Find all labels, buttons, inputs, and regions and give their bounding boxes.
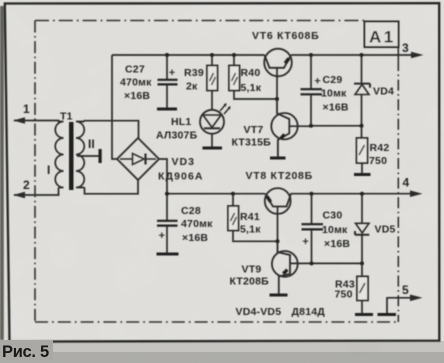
svg-text:5,1к: 5,1к: [241, 82, 262, 94]
dash-dot boundary top side: [35, 20, 365, 22]
transformer T1 secondary winding II: [76, 122, 85, 188]
svg-text:С29: С29: [323, 74, 343, 86]
dash-dot boundary left side: [35, 21, 398, 323]
resistor R39: [211, 55, 213, 66]
node dot R41 top: [231, 192, 235, 196]
resistor R40: [233, 55, 235, 66]
svg-text:С27: С27: [125, 64, 145, 76]
svg-text:R39: R39: [184, 67, 204, 79]
arrowhead 5: [410, 295, 423, 302]
capacitor C30: [311, 194, 313, 224]
svg-text:АЛ307Б: АЛ307Б: [156, 130, 198, 142]
node dot VD4 top: [360, 53, 364, 57]
capacitor C28: [166, 194, 168, 220]
svg-text:750: 750: [369, 155, 387, 167]
darker strip below frame: [0, 341, 444, 363]
R42 chassis bar: [354, 173, 371, 176]
Ris.5 label box: [0, 340, 53, 360]
center tap wire: [77, 155, 99, 157]
svg-text:КТ208Б: КТ208Б: [230, 276, 270, 288]
zener diode VD5: [361, 194, 363, 223]
resistor R43: [361, 263, 363, 276]
VT9 chassis bar: [270, 294, 288, 297]
wire to arrow 5: [387, 298, 411, 313]
svg-text:4: 4: [403, 176, 410, 190]
svg-text:VD5: VD5: [375, 224, 396, 236]
svg-text:×16В: ×16В: [124, 90, 150, 102]
bridge rectifier VD3: [117, 138, 159, 180]
top rail: [112, 54, 265, 56]
svg-text:×16В: ×16В: [182, 232, 208, 244]
VT7 chassis bar: [270, 157, 286, 160]
svg-text:II: II: [88, 137, 95, 151]
capacitor C29: [310, 55, 312, 88]
dash-dot boundary right side: [397, 60, 399, 322]
dash-dot boundary bottom side: [35, 321, 398, 323]
node dot VT8 base / VT9 collector: [276, 239, 280, 243]
capacitor C27: [166, 55, 168, 79]
C27 plus sign: [169, 70, 174, 76]
mid rail top half: [311, 125, 362, 127]
zener diode VD4: [361, 55, 363, 84]
svg-text:VD4: VD4: [373, 86, 394, 98]
transformer T1 primary winding I: [55, 122, 63, 196]
svg-text:С28: С28: [181, 205, 201, 217]
svg-text:5: 5: [402, 283, 409, 297]
svg-text:470мк: 470мк: [181, 218, 213, 230]
svg-text:R42: R42: [370, 142, 390, 154]
resistor R42: [361, 126, 363, 138]
transistor VT9: [272, 251, 298, 277]
svg-text:КТ315Б: КТ315Б: [232, 137, 272, 149]
HL1 emission arrows: [220, 104, 230, 114]
svg-text:HL1: HL1: [171, 116, 191, 128]
svg-text:КД906А: КД906А: [158, 171, 204, 183]
svg-text:5,1к: 5,1к: [240, 224, 261, 236]
svg-text:VT6 КТ608Б: VT6 КТ608Б: [252, 30, 319, 42]
node dot VD5 top: [360, 192, 364, 196]
C27 chassis bar: [157, 108, 177, 111]
svg-text:×16В: ×16В: [324, 238, 350, 250]
R43 chassis bar: [355, 313, 373, 316]
arrowhead 4: [410, 190, 423, 197]
svg-text:2к: 2к: [186, 81, 198, 93]
svg-text:С30: С30: [323, 210, 343, 222]
HL1 chassis bar: [203, 147, 223, 150]
svg-text:VD3: VD3: [172, 156, 195, 168]
svg-text:I: I: [47, 163, 50, 177]
arrowhead 2: [13, 192, 25, 199]
node dot R40 top: [232, 53, 236, 57]
resistor R41: [232, 194, 234, 206]
svg-text:×16В: ×16В: [323, 102, 349, 114]
svg-text:R41: R41: [240, 211, 260, 223]
diode inside bridge: [120, 158, 156, 160]
block A1 box: [365, 22, 399, 48]
bottom rail 4: [167, 193, 265, 195]
wire terminal 1: [14, 121, 59, 123]
node dot C27 top: [165, 53, 169, 57]
svg-text:Рис. 5: Рис. 5: [2, 343, 49, 361]
svg-text:10мк: 10мк: [322, 224, 348, 236]
svg-text:VT7: VT7: [244, 124, 264, 136]
svg-text:Д814Д: Д814Д: [292, 306, 326, 318]
transistor VT7: [271, 113, 297, 139]
node dot C30 top: [310, 192, 314, 196]
wire terminal 2: [14, 194, 59, 196]
svg-text:R40: R40: [241, 67, 261, 79]
svg-text:VT8 КТ208Б: VT8 КТ208Б: [246, 170, 313, 182]
secondary top lead wire: [85, 121, 139, 139]
mid rail bottom half: [312, 262, 363, 264]
svg-text:1: 1: [23, 102, 30, 116]
node dot VT6 base / VT7 collector: [275, 97, 279, 101]
node dot C29 top: [309, 53, 313, 57]
bridge right vertex wire down: [159, 159, 167, 194]
svg-text:750: 750: [335, 289, 353, 301]
transformer core: [69, 122, 74, 190]
svg-text:VD4-VD5: VD4-VD5: [236, 306, 282, 318]
node dot R39 top: [210, 53, 214, 57]
scan edge shadow left: [0, 6, 4, 340]
svg-text:3: 3: [402, 41, 409, 55]
LED HL1: [200, 110, 224, 134]
C28 chassis bar: [157, 253, 179, 256]
left rail from bridge plus up to top rail: [112, 55, 117, 159]
svg-text:470мк: 470мк: [120, 77, 152, 89]
arrowhead 1: [13, 117, 25, 124]
arrowhead 3: [411, 52, 424, 59]
svg-text:2: 2: [23, 178, 30, 192]
chassis bar for output 5: [378, 313, 397, 316]
secondary bottom lead wire: [85, 180, 139, 194]
center tap terminal bar: [99, 149, 102, 163]
svg-text:А1: А1: [369, 28, 396, 47]
svg-text:10мк: 10мк: [321, 88, 347, 100]
svg-text:VT9: VT9: [242, 264, 262, 276]
